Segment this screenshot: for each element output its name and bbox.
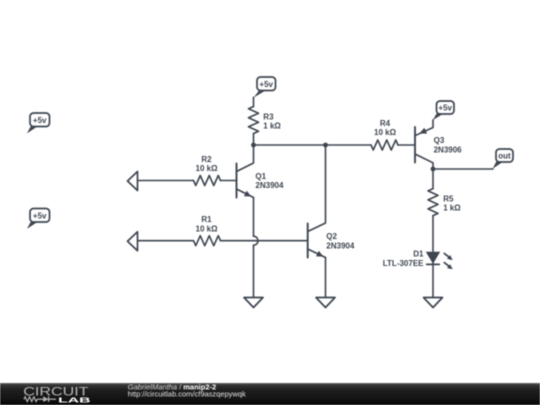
svg-text:R1: R1 <box>201 215 212 224</box>
svg-text:+5v: +5v <box>33 211 47 220</box>
svg-text:2N3904: 2N3904 <box>326 241 355 250</box>
svg-text:Q3: Q3 <box>434 136 445 145</box>
svg-text:LTL-307EE: LTL-307EE <box>383 259 424 268</box>
svg-text:R2: R2 <box>201 155 212 164</box>
svg-text:R5: R5 <box>443 194 454 203</box>
svg-text:2N3906: 2N3906 <box>434 145 463 154</box>
svg-text:2N3904: 2N3904 <box>255 181 284 190</box>
svg-text:+5v: +5v <box>438 104 452 113</box>
svg-text:Q1: Q1 <box>255 172 266 181</box>
svg-text:+5v: +5v <box>259 80 273 89</box>
svg-text:1 kΩ: 1 kΩ <box>263 122 281 131</box>
svg-text:R4: R4 <box>380 119 391 128</box>
svg-text:out: out <box>498 152 511 161</box>
svg-text:R3: R3 <box>263 112 274 121</box>
svg-text:10 kΩ: 10 kΩ <box>196 164 219 173</box>
svg-text:1 kΩ: 1 kΩ <box>443 204 461 213</box>
svg-text:10 kΩ: 10 kΩ <box>374 128 397 137</box>
svg-text:+5v: +5v <box>33 116 47 125</box>
svg-text:http://circuitlab.com/cf9aszqe: http://circuitlab.com/cf9aszqepywqk <box>128 390 246 399</box>
svg-text:Q2: Q2 <box>326 232 337 241</box>
svg-text:D1: D1 <box>413 250 424 259</box>
svg-text:10 kΩ: 10 kΩ <box>196 224 219 233</box>
svg-text:LAB: LAB <box>58 395 92 404</box>
